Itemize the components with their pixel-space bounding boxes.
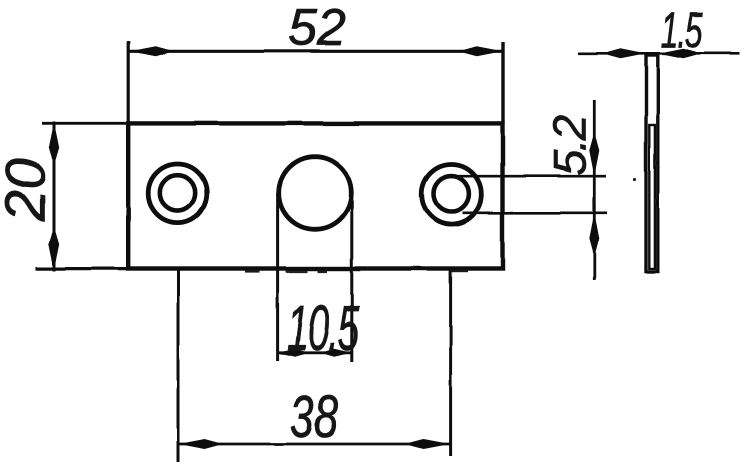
arrow 52 left [130,46,169,56]
svg-text:5.2: 5.2 [544,115,596,175]
arrow 20 down [49,232,59,270]
extension line 38 right (below right hole) [449,267,452,456]
dimension line 52 [129,50,504,53]
extension line 38 left (below left hole) [177,267,180,462]
arrow 10.5 right [325,349,351,357]
arrow 38 left [179,439,219,449]
extension line left for 52 (plate left edge extended up) [127,41,130,124]
dimension line 10.5 [278,351,352,354]
arrow 10.5 left [278,349,304,357]
arrow 5.2 up-pointing [589,213,599,252]
arrow 1.5 right (pointing left) [658,48,696,58]
right hole inner circle dia 5.2 [434,176,469,211]
arrow 1.5 left (pointing right at plate edge) [608,48,646,58]
left hole inner circle [160,175,195,210]
svg-text:52: 52 [288,0,346,57]
svg-text:20: 20 [0,158,58,223]
extension line 10.5 right tangent [350,193,353,362]
arrow 5.2 down-pointing [589,137,599,176]
extension line bottom for 20 (plate bottom edge extended left) [36,267,128,270]
extension line 10.5 left tangent [276,193,279,361]
dimension line 5.2 vertical [593,100,596,280]
left hole outer circle (counterbore) [148,164,207,223]
side view hole lines (inner rectangle) [649,125,655,269]
dimension line 20 [53,122,56,272]
dimension line 1.5 [578,52,740,55]
arrow 20 up [49,123,59,161]
ink bumps under plate bottom edge [245,270,259,272]
svg-text:38: 38 [290,383,338,449]
svg-text:1.5: 1.5 [661,2,703,58]
center hole circle dia 10.5 [279,157,352,230]
plate front view outline [128,123,502,268]
extension line top for 20 (plate top edge extended left) [42,122,128,125]
dimension line 38 [178,443,451,446]
right hole outer circle (counterbore) [422,165,482,225]
leader line 5.2 top tangent [451,175,607,178]
leader line 5.2 bottom tangent [463,212,608,215]
scan speckle dot near 5.2 leader [633,178,636,181]
svg-text:10.5: 10.5 [287,293,360,364]
extension line right for 52 [501,42,504,124]
arrow 38 right [410,439,450,449]
arrow 52 right [464,46,503,56]
side view outer outline [646,55,658,272]
